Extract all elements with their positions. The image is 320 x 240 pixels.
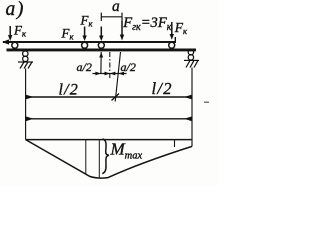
svg-text:l/2: l/2 (152, 79, 173, 98)
svg-text:l/2: l/2 (59, 82, 80, 99)
svg-text:a: a (112, 0, 120, 15)
svg-text:Fгк=3Fк: Fгк=3Fк (122, 15, 172, 33)
svg-text:a): a) (6, 0, 25, 20)
svg-text:a/2: a/2 (121, 60, 136, 74)
svg-text:a/2: a/2 (77, 60, 92, 74)
